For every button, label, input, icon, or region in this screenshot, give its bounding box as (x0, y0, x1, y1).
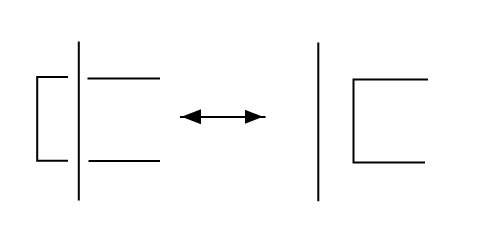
wire: left figure top-right horizontal segment (88, 78, 161, 80)
wire: right figure long vertical line (317, 43, 319, 202)
component outline: right bracket (open right) (354, 80, 429, 163)
component outline: left bracket (open right), crossed by vertical wire (37, 77, 68, 161)
wire: left figure bottom-right horizontal segment (89, 160, 161, 162)
equivalence arrow (double-headed) (180, 109, 266, 124)
wire: left figure long vertical line (78, 42, 80, 201)
